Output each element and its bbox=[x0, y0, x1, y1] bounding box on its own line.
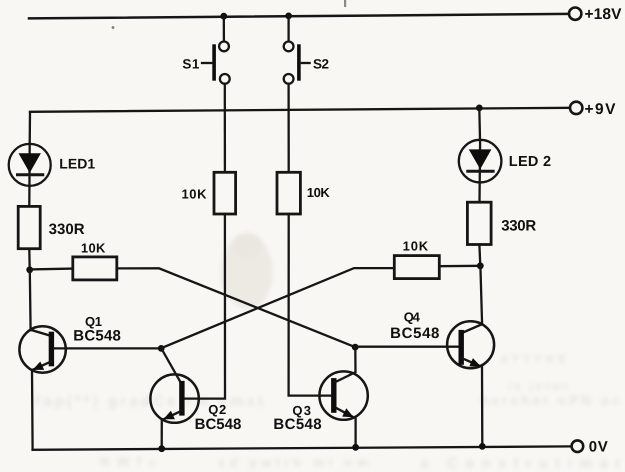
resistor R1 10K bbox=[214, 172, 236, 214]
junction: Q2 emitter / 0V rail bbox=[158, 445, 165, 452]
wire: Q1 base to node B bbox=[54, 347, 161, 349]
svg-text:S1: S1 bbox=[182, 57, 199, 72]
svg-text:10K: 10K bbox=[307, 185, 331, 200]
transistor Q3 bbox=[319, 371, 367, 419]
svg-text:BC548: BC548 bbox=[390, 325, 439, 342]
svg-text:BC548: BC548 bbox=[195, 416, 242, 433]
wire: R1 to Q2 base bbox=[185, 214, 226, 399]
svg-text:ATTTHE: ATTTHE bbox=[500, 352, 566, 366]
terminal 0V bbox=[572, 440, 584, 452]
svg-text:sd pwtrh ml nm: sd pwtrh ml nm bbox=[218, 455, 368, 470]
junction node B (Q1 base / Q2 collector) bbox=[158, 345, 165, 352]
wire: node A to R3 bbox=[30, 267, 73, 270]
LED LED1 bbox=[9, 144, 51, 186]
wire: Q2 emitter to 0V rail bbox=[161, 419, 163, 449]
wire: S1 bottom contact to R1 bbox=[224, 84, 226, 173]
svg-text:+18V: +18V bbox=[585, 6, 623, 23]
wire: S2 bottom contact to R2 bbox=[287, 84, 289, 173]
pushbutton S2 bbox=[284, 42, 310, 84]
junction: LED2 branch / +9V rail bbox=[476, 105, 483, 112]
wire: +18V rail to S2 top contact bbox=[287, 16, 289, 42]
wire: +18V rail to S1 top contact bbox=[223, 16, 225, 41]
wire: +18V supply rail bbox=[29, 14, 569, 19]
wire: R6 to node D bbox=[478, 245, 481, 266]
svg-text:Q4: Q4 bbox=[404, 309, 421, 324]
resistor R2 10K bbox=[277, 172, 300, 214]
svg-text:fap(**) gradCe rm vmxt: fap(**) gradCe rm vmxt bbox=[35, 393, 263, 410]
junction: Q3 emitter / 0V rail bbox=[352, 444, 359, 451]
resistor R4 10K bbox=[394, 256, 439, 279]
wire: node C to Q3 collector bbox=[336, 347, 355, 381]
svg-text:a Construtimat: a Construtimat bbox=[420, 455, 620, 472]
resistor R6 330R bbox=[467, 202, 491, 244]
wire: 0V supply rail bbox=[33, 446, 572, 449]
svg-text:herehet nPN oc: herehet nPN oc bbox=[480, 392, 620, 408]
transistor Q4 bbox=[447, 321, 494, 368]
wire: Q3 emitter to 0V rail bbox=[354, 417, 356, 447]
svg-text:10K: 10K bbox=[403, 239, 429, 254]
svg-text:BC548: BC548 bbox=[273, 416, 321, 433]
wire: Q1 emitter to 0V rail bbox=[31, 370, 34, 450]
svg-text:LED 2: LED 2 bbox=[509, 154, 551, 170]
svg-text:LED1: LED1 bbox=[59, 155, 95, 171]
resistor R5 330R bbox=[18, 206, 40, 248]
wire: +9V rail to LED2 and R6 330R bbox=[478, 108, 481, 202]
svg-text:BC548: BC548 bbox=[73, 327, 121, 344]
svg-text:S2: S2 bbox=[313, 57, 329, 72]
svg-text:Q2: Q2 bbox=[208, 402, 226, 417]
wire: R3 to node C (cross-coupling) bbox=[117, 268, 355, 347]
wire: node B to R4 (cross-coupling) bbox=[161, 268, 394, 348]
transistor Q1 bbox=[19, 326, 65, 372]
terminal +18V bbox=[569, 8, 581, 20]
svg-text:330R: 330R bbox=[49, 221, 85, 238]
svg-text:is jefwr: is jefwr bbox=[508, 381, 569, 393]
wire: R5 to node A bbox=[28, 249, 31, 270]
svg-text:0V: 0V bbox=[589, 439, 608, 456]
svg-text:330R: 330R bbox=[501, 218, 536, 235]
wire: Q4 emitter to 0V rail bbox=[481, 366, 484, 446]
junction node D (Q4 collector / R4) bbox=[477, 262, 484, 269]
LED LED2 bbox=[459, 140, 502, 183]
junction: S1 / +18V rail bbox=[220, 13, 227, 20]
resistor R3 10K bbox=[73, 257, 117, 280]
wire: R4 to node D bbox=[439, 265, 480, 268]
wire: +9V rail to LED1 and R5 330R bbox=[28, 112, 31, 206]
svg-text:10K: 10K bbox=[182, 187, 208, 202]
junction node C (Q3 collector / Q4 base) bbox=[352, 344, 359, 351]
wire: node B to Q2 collector bbox=[162, 349, 182, 384]
wire: +9V supply rail bbox=[30, 108, 570, 112]
wire: node D to Q4 collector bbox=[480, 266, 482, 324]
svg-text:10K: 10K bbox=[81, 241, 106, 256]
junction node A (Q1 collector / R3) bbox=[26, 266, 33, 273]
junction: Q4 emitter / 0V rail bbox=[479, 443, 486, 450]
junction: S2 / +18V rail bbox=[285, 13, 292, 20]
wire: node C to Q4 base bbox=[355, 346, 458, 348]
terminal +9V bbox=[570, 102, 582, 114]
pushbutton S1 bbox=[202, 42, 230, 84]
transistor Q2 bbox=[150, 374, 198, 422]
wire: node A to Q1 collector bbox=[29, 270, 32, 330]
svg-text:+9V: +9V bbox=[585, 101, 617, 118]
wire: R2 to Q3 base bbox=[289, 214, 332, 396]
svg-text:NWfc: NWfc bbox=[100, 454, 156, 469]
